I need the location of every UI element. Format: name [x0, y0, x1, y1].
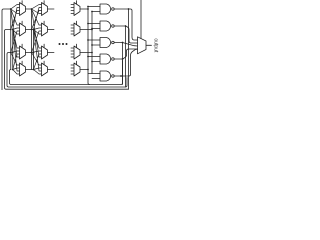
wire: layer-1 fan vertical A: [31, 9, 33, 70]
wire: layer-2 outputs (to omitted layers): [48, 9, 55, 70]
mux M33 (layer n): [71, 44, 80, 59]
mux M34 (layer n): [71, 61, 80, 76]
NAND gate G3: [100, 38, 114, 48]
NAND gate G2: [100, 21, 114, 31]
wire: NAND input rungs: [88, 7, 100, 79]
node: ellipsis (omitted layers): [59, 43, 68, 45]
node: G5 junction: [120, 75, 122, 77]
wire: feedback rail 2: [5, 30, 129, 90]
wire: input fan vertical B: [12, 30, 14, 70]
node: output crossbar junctions: [87, 6, 93, 71]
node: G4 junction: [122, 58, 124, 60]
wire: G2 feedback vertical: [125, 26, 127, 87]
mux M4 (output mux): [138, 37, 152, 54]
node: G1 feedback junction: [128, 8, 130, 10]
wire: crossbar fan to layer 2: [32, 5, 42, 75]
mux M12 (layer 1): [20, 21, 26, 36]
wire: G5 output to output mux: [114, 49, 137, 76]
wire: G1 output to output mux: [114, 9, 137, 40]
wire: layer-n outputs: [80, 9, 92, 70]
mux M23 (layer 2): [42, 44, 48, 59]
label: output: [153, 38, 159, 53]
wire: G3 output to output mux: [114, 43, 137, 47]
wire: feedback rail 4: [10, 61, 123, 85]
wire: G4 output to output mux: [114, 49, 137, 59]
wire: feedback rail 1 (outermost, left): [2, 9, 11, 90]
wire: input fan vertical A: [10, 9, 12, 70]
wire: layer-1 fan vertical B: [33, 30, 35, 70]
wire: input crossbar fan to layer 1: [11, 5, 20, 75]
node: layer-1 fan junctions: [31, 8, 35, 70]
mux M22 (layer 2): [42, 21, 48, 36]
svg-text:output: output: [153, 38, 159, 53]
mux M31 (layer n): [71, 1, 80, 16]
wire: feedback rail 3: [7, 53, 127, 88]
mux M21 (layer 2): [42, 1, 48, 16]
wire: output crossbar vertical B: [91, 12, 93, 74]
mux M13 (layer 1): [20, 44, 26, 59]
node: G3 feedback junction: [122, 42, 124, 44]
wire: output crossbar vertical A: [88, 7, 90, 85]
mux M32 (layer n): [71, 21, 80, 36]
wire: G2 output to output mux: [114, 26, 137, 43]
mux M11 (layer 1): [20, 1, 26, 16]
NAND gate G5: [100, 71, 114, 81]
NAND gate G4: [100, 54, 114, 64]
node: G2 feedback junction: [125, 25, 127, 27]
wire: G1 feedback vertical: [128, 9, 130, 89]
wire: layer-1 outputs: [26, 9, 34, 70]
node: input fan junctions: [10, 8, 14, 70]
mux M24 (layer 2): [42, 61, 48, 76]
NAND gate G1: [100, 4, 114, 14]
mux M14 (layer 1): [20, 61, 26, 76]
wire: output-mux select line: [140, 0, 142, 39]
wire: G3 feedback vertical: [122, 43, 124, 85]
